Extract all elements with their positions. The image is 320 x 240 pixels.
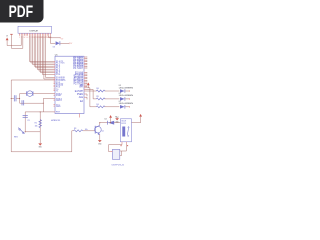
svg-text:AT89C51: AT89C51 xyxy=(51,119,61,122)
svg-text:LED-GREEN: LED-GREEN xyxy=(119,95,134,97)
svg-text:10k: 10k xyxy=(85,129,88,131)
svg-text:PDF: PDF xyxy=(9,2,34,21)
svg-text:5V: 5V xyxy=(6,35,8,37)
svg-text:GND: GND xyxy=(56,106,61,108)
svg-text:DC12V: DC12V xyxy=(121,123,126,125)
svg-text:EA: EA xyxy=(80,100,84,103)
svg-text:OUTPUT-J1: OUTPUT-J1 xyxy=(112,164,125,166)
svg-text:R5: R5 xyxy=(96,96,98,98)
svg-text:10k: 10k xyxy=(35,125,38,127)
svg-text:P0.7/AD7: P0.7/AD7 xyxy=(73,67,84,70)
svg-text:D2: D2 xyxy=(105,118,107,120)
svg-text:GND1: GND1 xyxy=(56,100,63,102)
svg-text:DISPLAY: DISPLAY xyxy=(29,29,38,32)
svg-text:R1: R1 xyxy=(35,122,37,124)
svg-text:EA/VPP: EA/VPP xyxy=(75,90,84,93)
svg-text:LED-GREEN: LED-GREEN xyxy=(119,87,134,89)
svg-text:D3: D3 xyxy=(53,46,55,48)
svg-text:R4: R4 xyxy=(96,104,98,106)
svg-text:Q1: Q1 xyxy=(101,131,103,133)
svg-text:R3: R3 xyxy=(74,128,76,130)
svg-text:LED-GREEN: LED-GREEN xyxy=(119,103,134,105)
svg-text:C3: C3 xyxy=(27,120,29,122)
svg-text:G5CLE: G5CLE xyxy=(121,121,126,123)
svg-text:PSEN: PSEN xyxy=(77,94,84,96)
svg-text:XTA2: XTA2 xyxy=(56,94,62,97)
svg-text:RST: RST xyxy=(56,112,61,114)
svg-text:WR: WR xyxy=(79,86,83,88)
svg-text:R6: R6 xyxy=(96,88,98,90)
svg-text:ALE: ALE xyxy=(79,96,84,99)
